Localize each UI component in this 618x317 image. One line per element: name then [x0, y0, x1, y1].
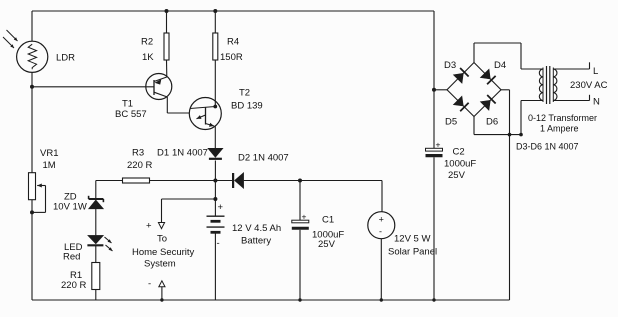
svg-text:+: +: [379, 215, 384, 225]
svg-text:12 V 4.5 Ah: 12 V 4.5 Ah: [232, 223, 281, 234]
svg-text:1N 4007: 1N 4007: [172, 148, 208, 159]
svg-text:To: To: [157, 234, 167, 245]
svg-text:25V: 25V: [318, 239, 336, 250]
svg-text:T2: T2: [239, 88, 250, 99]
svg-text:+: +: [146, 221, 152, 232]
svg-text:230V AC: 230V AC: [570, 80, 608, 91]
svg-text:D5: D5: [445, 117, 457, 128]
svg-text:N: N: [593, 97, 600, 108]
svg-text:Solar Panel: Solar Panel: [388, 247, 437, 258]
svg-text:220 R: 220 R: [127, 160, 152, 171]
svg-text:R2: R2: [141, 37, 153, 48]
svg-text:-: -: [379, 227, 382, 237]
svg-text:R3: R3: [132, 148, 144, 159]
svg-text:D3-D6 1N 4007: D3-D6 1N 4007: [516, 142, 579, 152]
svg-text:1K: 1K: [142, 52, 154, 63]
svg-text:LDR: LDR: [56, 53, 75, 64]
svg-text:12V 5 W: 12V 5 W: [394, 234, 430, 245]
svg-text:1000uF: 1000uF: [444, 159, 476, 170]
svg-text:1 Ampere: 1 Ampere: [540, 124, 579, 134]
svg-text:220 R: 220 R: [61, 280, 86, 291]
svg-text:Red: Red: [63, 252, 80, 263]
svg-text:BC 557: BC 557: [115, 109, 147, 120]
svg-text:C2: C2: [453, 147, 465, 158]
svg-text:-: -: [148, 279, 151, 290]
svg-text:D1: D1: [157, 148, 169, 159]
svg-text:L: L: [593, 66, 598, 77]
svg-text:25V: 25V: [448, 170, 466, 181]
svg-text:BD 139: BD 139: [231, 101, 263, 112]
svg-text:System: System: [144, 259, 176, 270]
svg-text:Battery: Battery: [241, 236, 271, 247]
svg-text:VR1: VR1: [40, 148, 58, 159]
svg-text:D4: D4: [494, 60, 506, 71]
svg-text:0-12 Transformer: 0-12 Transformer: [528, 113, 597, 123]
svg-text:R4: R4: [227, 37, 239, 48]
svg-text:D3: D3: [444, 60, 456, 71]
svg-text:150R: 150R: [220, 52, 243, 63]
svg-text:D6: D6: [486, 117, 498, 128]
svg-text:T1: T1: [122, 99, 133, 110]
svg-text:10V 1W: 10V 1W: [53, 202, 87, 213]
svg-text:D2 1N 4007: D2 1N 4007: [238, 153, 289, 164]
svg-text:1M: 1M: [43, 160, 56, 171]
svg-text:C1: C1: [322, 215, 334, 226]
svg-text:Home Security: Home Security: [132, 247, 195, 258]
svg-text:-: -: [217, 238, 220, 249]
svg-text:+: +: [218, 202, 224, 213]
